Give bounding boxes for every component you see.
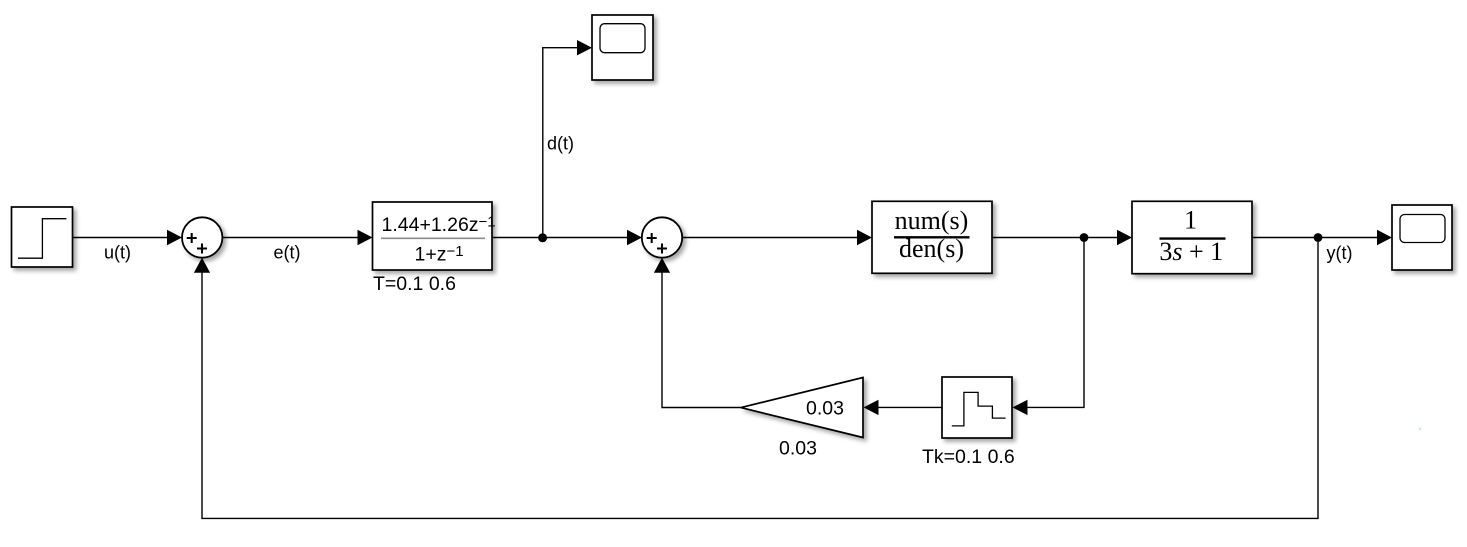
transfer function block 1/(3s+1) xyxy=(1132,201,1252,273)
svg-text:0.03: 0.03 xyxy=(806,398,844,420)
arrowhead into discrete TF xyxy=(358,230,373,245)
ZOH staircase symbol xyxy=(952,392,1006,426)
wire ZOH to gain xyxy=(878,406,942,408)
step symbol xyxy=(18,219,66,259)
arrowhead into gain (pointing left) xyxy=(864,400,879,415)
wire sum2 to num/den block xyxy=(682,237,859,239)
node branch y(t) xyxy=(1314,233,1323,242)
arrowhead into sum2 bottom (pointing up) xyxy=(654,258,670,273)
svg-text:3s + 1: 3s + 1 xyxy=(1159,237,1223,266)
plus sign bottom input S2 xyxy=(657,244,667,254)
svg-text:1.44+1.26z−1: 1.44+1.26z−1 xyxy=(382,214,496,237)
scope block (right) xyxy=(1392,205,1452,270)
svg-text:e(t): e(t) xyxy=(274,243,301,263)
step source block xyxy=(12,207,73,267)
arrowhead into num/den xyxy=(857,230,872,245)
arrowhead into right scope xyxy=(1377,230,1392,245)
plus sign left input S2 xyxy=(647,233,657,243)
node branch to ZOH feedback xyxy=(1080,233,1089,242)
sum junction S1 xyxy=(182,217,222,257)
svg-text:den(s): den(s) xyxy=(899,234,964,263)
scope screen (top) xyxy=(600,24,645,53)
wire gain to sum2 (up) xyxy=(662,272,741,408)
arrowhead into sum1 bottom (pointing up) xyxy=(194,258,210,273)
fraction bar xyxy=(894,236,970,238)
svg-text:Tk=0.1 0.6: Tk=0.1 0.6 xyxy=(922,446,1015,468)
plus sign left input S1 xyxy=(187,233,197,243)
svg-text:num(s): num(s) xyxy=(895,206,969,235)
svg-text:T=0.1 0.6: T=0.1 0.6 xyxy=(373,273,456,295)
arrowhead into sum1 xyxy=(167,230,182,245)
discrete transfer function block (1.44+1.26z^-1)/(1+z^-1) xyxy=(373,202,493,270)
arrowhead into ZOH (pointing left) xyxy=(1013,400,1028,415)
svg-text:u(t): u(t) xyxy=(104,243,131,263)
wire sum1 to discrete TF xyxy=(222,237,359,239)
scope block (top) xyxy=(592,15,653,80)
arrowhead into 1/(3s+1) xyxy=(1117,230,1132,245)
scope screen (right) xyxy=(1400,215,1445,243)
outer feedback wire y(t) to sum1 xyxy=(202,238,1318,519)
fraction bar (gray) xyxy=(381,237,485,239)
arrowhead into sum2 xyxy=(627,230,642,245)
node branch to scope d(t) xyxy=(538,233,547,242)
svg-text:1: 1 xyxy=(1184,206,1197,235)
wire step to sum1 xyxy=(73,237,169,239)
sum junction S2 xyxy=(642,217,682,257)
svg-text:0.03: 0.03 xyxy=(779,438,817,460)
fraction bar xyxy=(1160,237,1226,239)
wire 1/(3s+1) to right scope xyxy=(1252,237,1379,239)
wire discrete TF to sum2 xyxy=(492,237,629,239)
gain block 0.03 (triangle pointing left) xyxy=(741,378,863,438)
svg-text:y(t): y(t) xyxy=(1327,243,1353,263)
wire num/den to 1/(3s+1) xyxy=(992,237,1119,239)
svg-text:d(t): d(t) xyxy=(547,134,574,154)
continuous transfer function block num(s)/den(s) xyxy=(872,201,992,273)
plus sign bottom input S1 xyxy=(197,244,207,254)
wire branch up to top scope xyxy=(543,48,579,238)
stray annotation dot xyxy=(1419,428,1422,431)
wire node to ZOH (inner feedback) xyxy=(1026,238,1084,408)
zero-order hold block xyxy=(942,377,1012,438)
arrowhead into top scope xyxy=(577,40,592,55)
